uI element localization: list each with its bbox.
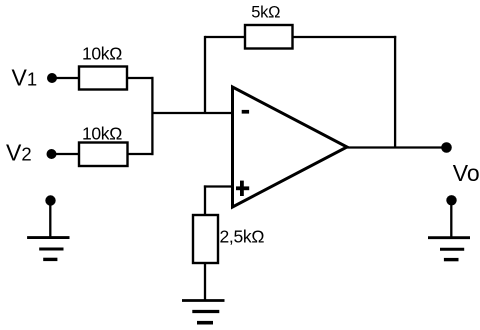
wire R4 to bottom ground (204, 263, 206, 300)
wire feedback top left to R3 (205, 36, 246, 38)
op-amp inverting input minus sign (242, 110, 249, 114)
node right ground terminal dot (446, 195, 456, 205)
node V2 terminal dot (47, 149, 57, 159)
resistor R4 2,5kΩ (vertical) (193, 215, 218, 263)
svg-text:10kΩ: 10kΩ (82, 44, 122, 64)
svg-text:2,5kΩ: 2,5kΩ (220, 227, 265, 247)
resistor R1 10kΩ (79, 67, 127, 90)
wire right ground stub (450, 200, 452, 237)
resistor R3 5kΩ (245, 25, 293, 49)
wire R4 tap vertical down to R4 (204, 185, 206, 216)
wire feedback tap vertical (204, 36, 206, 113)
node V1 terminal dot (47, 73, 57, 83)
wire summing bus vertical (151, 77, 153, 155)
op-amp U1 triangle (233, 87, 348, 207)
svg-text:V1: V1 (12, 65, 38, 91)
wire summing node to op-amp inverting input (152, 112, 232, 114)
svg-text:Vo: Vo (453, 160, 480, 186)
op-amp non-inverting input plus sign (236, 186, 249, 190)
node Vo output dot (441, 142, 452, 153)
svg-text:V2: V2 (6, 139, 32, 165)
ground (right, below Vo) (428, 236, 470, 239)
resistor R2 10kΩ (79, 143, 128, 167)
wire V1 dot to R1 (52, 77, 80, 79)
svg-text:10kΩ: 10kΩ (82, 124, 122, 144)
wire V2 dot to R2 (52, 153, 81, 155)
node left ground terminal dot (45, 195, 55, 205)
wire op-amp output to Vo node (347, 146, 447, 148)
wire R1 to summing bus (127, 77, 154, 79)
wire left ground stub (49, 201, 51, 238)
wire R3 to right feedback corner (293, 36, 397, 38)
ground (left, below inputs) (27, 236, 69, 239)
ground (bottom, below R4) (182, 299, 225, 302)
wire op-amp non-inverting input to R4 tap (204, 185, 233, 187)
wire feedback right vertical to output (394, 36, 396, 148)
wire R2 to summing bus (128, 153, 154, 155)
svg-text:5kΩ: 5kΩ (251, 3, 280, 21)
